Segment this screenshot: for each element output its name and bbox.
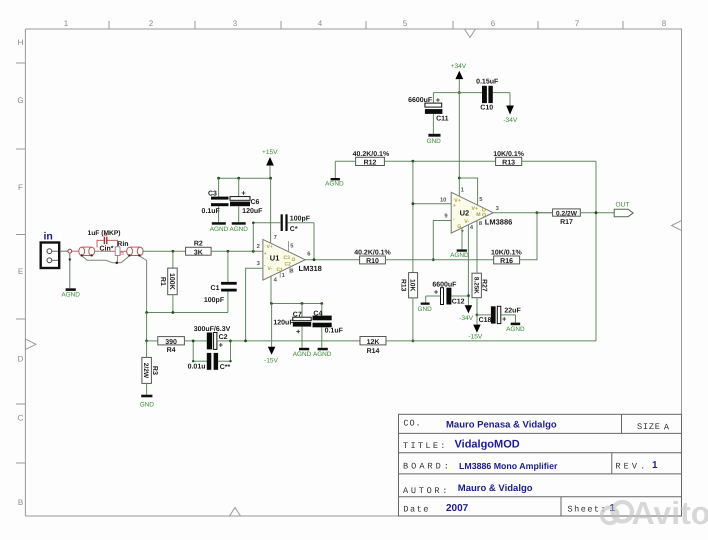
wire R10 to R16 <box>385 259 493 261</box>
svg-text:-: - <box>453 217 455 223</box>
svg-text:C12: C12 <box>452 299 465 306</box>
svg-text:8: 8 <box>290 267 294 274</box>
frame center mark top <box>465 29 476 38</box>
svg-text:C7: C7 <box>293 311 302 318</box>
capacitor C3 <box>202 178 229 222</box>
svg-text:AGND: AGND <box>229 226 248 233</box>
wire R13 to output node <box>595 161 597 341</box>
svg-text:TITLE:: TITLE: <box>403 441 448 451</box>
svg-text:R17: R17 <box>560 219 573 226</box>
wire R4 rail to R14 <box>231 340 361 342</box>
node U2 pin10 tap <box>412 202 415 205</box>
wire junction down to AGND <box>69 253 71 288</box>
wire U2 pin 10 <box>413 203 451 205</box>
svg-text:4: 4 <box>274 278 278 284</box>
node +15V tap <box>269 177 272 180</box>
svg-text:LM318: LM318 <box>299 264 322 273</box>
svg-text:AUTOR:: AUTOR: <box>403 486 450 496</box>
svg-text:Rin: Rin <box>117 240 128 248</box>
power -15V (U1) <box>271 304 273 347</box>
svg-text:1uF (MKP): 1uF (MKP) <box>87 230 120 237</box>
capacitor C11 6600uF <box>408 93 449 134</box>
svg-text:+: + <box>434 288 439 297</box>
svg-text:GND: GND <box>140 402 155 409</box>
svg-text:AGND: AGND <box>210 226 229 233</box>
resistor R13b vertical 10K <box>400 273 418 341</box>
svg-text:2007: 2007 <box>446 503 469 514</box>
wire Rin bottom lead <box>117 256 119 263</box>
wire U2 pin 8 to R27 <box>476 221 478 274</box>
junction dots shield <box>81 254 141 264</box>
svg-text:LM3886 Mono Amplifier: LM3886 Mono Amplifier <box>459 461 558 471</box>
svg-text:D: D <box>18 355 24 364</box>
svg-text:R27: R27 <box>480 279 487 292</box>
wire shield return path <box>82 256 130 263</box>
svg-text:1: 1 <box>64 19 69 28</box>
svg-text:R14: R14 <box>367 348 380 355</box>
svg-text:0.1uF: 0.1uF <box>325 328 344 335</box>
capacitor C6 <box>230 178 263 222</box>
svg-text:R2: R2 <box>194 241 203 248</box>
svg-text:R10: R10 <box>366 258 379 265</box>
svg-text:AGND: AGND <box>61 292 80 299</box>
svg-text:V-: V- <box>464 219 469 225</box>
svg-text:R12: R12 <box>364 159 377 166</box>
node shield/C1 rail <box>145 311 148 314</box>
svg-text:C*: C* <box>290 226 298 233</box>
svg-text:3K: 3K <box>194 249 203 256</box>
svg-text:OUT: OUT <box>616 202 630 209</box>
wire shield to vertical <box>139 256 146 313</box>
svg-text:120uF: 120uF <box>242 208 263 215</box>
wire U2 pin 3 output <box>493 212 552 214</box>
node U1 pin3 tap <box>244 340 247 343</box>
svg-text:+34V: +34V <box>451 63 467 70</box>
svg-text:100pF: 100pF <box>204 297 225 304</box>
svg-text:10: 10 <box>440 197 446 204</box>
wire R14 to output vertical <box>386 340 596 342</box>
svg-text:8: 8 <box>662 19 667 28</box>
capacitor C* 100pF feedback <box>252 214 314 259</box>
svg-text:CO.: CO. <box>403 419 421 429</box>
svg-text:in: in <box>44 231 53 243</box>
ground AGND (input) <box>66 288 76 291</box>
svg-text:+: + <box>219 340 224 349</box>
svg-text:O: O <box>292 257 296 263</box>
resistor R2 <box>186 241 212 257</box>
frame column numbers <box>64 19 667 28</box>
svg-text:5: 5 <box>403 19 408 28</box>
title block field labels <box>403 419 670 515</box>
capacitor C** 0.01u <box>188 341 231 371</box>
wire +34V down to U2 <box>458 93 460 197</box>
ground AGND (U2 pin 7) <box>461 228 463 250</box>
power -34V (U2) <box>465 305 473 313</box>
svg-text:VidalgoMOD: VidalgoMOD <box>455 439 520 451</box>
svg-text:F: F <box>18 183 23 192</box>
svg-text:V+: V+ <box>267 244 273 250</box>
svg-text:U1: U1 <box>270 254 280 263</box>
wire +15V rail <box>219 177 271 179</box>
svg-text:B: B <box>18 498 23 507</box>
svg-text:+: + <box>264 251 267 257</box>
node C2 left <box>192 340 195 343</box>
svg-text:C6: C6 <box>251 199 260 206</box>
svg-text:Avito: Avito <box>632 495 708 531</box>
resistor R17 0.2/2W <box>537 209 614 226</box>
svg-text:R16: R16 <box>500 258 513 265</box>
svg-text:SIZE: SIZE <box>637 422 661 432</box>
svg-text:1: 1 <box>461 188 465 194</box>
svg-text:12K: 12K <box>367 339 380 346</box>
node R12/R13 <box>412 160 415 163</box>
svg-text:AGND: AGND <box>313 351 332 358</box>
wire -15V rail under U1 <box>271 303 322 305</box>
resistor Rin <box>115 247 120 256</box>
resistor R13 10K/0.1% <box>493 150 596 166</box>
node R1 top <box>172 250 175 253</box>
wire R12 vertical down <box>412 161 414 272</box>
connector X1 "in" <box>41 243 60 269</box>
capacitor C7 120uF <box>273 304 311 348</box>
svg-text:A: A <box>664 422 670 432</box>
svg-text:Mauro & Vidalgo: Mauro & Vidalgo <box>458 483 533 494</box>
node C2 right <box>229 340 232 343</box>
capacitor C10 0.15uF <box>476 79 499 112</box>
op-amp U2 <box>451 192 493 233</box>
connector OUT flag <box>614 209 633 216</box>
capacitor Cin* 1uF MKP bypass loop <box>97 240 118 247</box>
svg-text:0.2/2W: 0.2/2W <box>556 210 578 217</box>
power -15V (R27) <box>476 315 478 325</box>
svg-text:300uF/6.3V: 300uF/6.3V <box>194 325 231 333</box>
node R13v bottom <box>412 340 415 343</box>
node C* corner <box>252 222 255 225</box>
svg-text:Date: Date <box>403 505 429 515</box>
svg-text:1: 1 <box>652 460 658 471</box>
ground AGND (C6) <box>232 222 246 225</box>
wire U1 output <box>305 259 359 261</box>
ground AGND (C3) <box>212 222 226 225</box>
node R17 right <box>595 211 598 214</box>
node R1 bottom <box>172 311 175 314</box>
svg-text:Mauro Penasa & Vidalgo: Mauro Penasa & Vidalgo <box>446 419 557 430</box>
svg-text:10K/0.1%: 10K/0.1% <box>493 150 525 158</box>
svg-text:7: 7 <box>575 19 580 28</box>
svg-text:LM3886: LM3886 <box>485 218 513 227</box>
wire U2 pin 9 <box>433 221 451 260</box>
node C7 top <box>301 302 304 305</box>
svg-text:R13: R13 <box>502 159 515 166</box>
svg-text:-15V: -15V <box>264 358 279 365</box>
node U2 pin1/pin5 <box>458 177 461 180</box>
svg-text:AGND: AGND <box>450 252 469 259</box>
capacitor C2 300uF/6.3V <box>193 325 230 349</box>
node C** left <box>192 360 194 362</box>
svg-text:-34V: -34V <box>459 315 474 322</box>
ground GND (C12) <box>421 303 430 305</box>
svg-text:C4: C4 <box>313 310 322 317</box>
svg-text:GND: GND <box>427 138 442 145</box>
svg-text:R13: R13 <box>400 279 407 292</box>
frame top ticks <box>109 21 623 29</box>
svg-text:7: 7 <box>274 235 277 241</box>
svg-text:3: 3 <box>496 205 500 212</box>
U1 pin numbers <box>257 235 312 284</box>
svg-text:C11: C11 <box>436 115 449 122</box>
ground GND (R3) <box>141 395 152 398</box>
wire bottom rail R1/C1 <box>147 312 228 314</box>
svg-text:GND: GND <box>417 306 432 313</box>
title block values <box>446 419 658 514</box>
svg-text:REV.: REV. <box>615 462 648 472</box>
resistor R1 <box>159 251 177 312</box>
node U1 output / C* <box>313 258 316 261</box>
svg-text:3: 3 <box>257 260 261 267</box>
svg-text:9: 9 <box>444 213 448 220</box>
svg-text:4: 4 <box>470 225 474 231</box>
svg-text:H: H <box>18 38 24 47</box>
svg-text:22uF: 22uF <box>504 308 521 315</box>
svg-text:2: 2 <box>149 19 154 28</box>
svg-text:C1: C1 <box>211 285 220 292</box>
svg-text:E: E <box>18 267 23 276</box>
svg-text:3: 3 <box>233 19 238 28</box>
resistor R16 10K/0.1% <box>491 249 523 265</box>
frame center mark right <box>672 221 682 231</box>
svg-text:AGND: AGND <box>506 326 525 333</box>
svg-text:4: 4 <box>318 19 323 28</box>
svg-text:-34V: -34V <box>503 117 518 124</box>
node C3 top <box>217 177 220 180</box>
solder jumper SJ2 <box>127 247 143 255</box>
svg-text:C3: C3 <box>284 255 291 261</box>
resistor R4 390 <box>147 337 194 355</box>
svg-text:M: M <box>476 212 480 218</box>
svg-text:R4: R4 <box>167 347 176 354</box>
svg-text:C18: C18 <box>479 317 492 324</box>
U2 pin numbers <box>440 188 500 236</box>
U2 pin names <box>453 198 486 230</box>
svg-text:+15V: +15V <box>262 149 278 156</box>
node U1 pin4 <box>270 302 273 305</box>
node C1 tap <box>227 250 230 253</box>
ground AGND (R12) <box>334 161 336 178</box>
svg-text:10K: 10K <box>409 279 416 292</box>
wire U1 pin 7 <box>270 178 272 243</box>
node input junction ring <box>68 249 72 253</box>
wire U1 pin 4 <box>270 276 272 303</box>
resistor R12 40.2K/0.1% <box>335 150 495 166</box>
wire connector to input junction <box>60 250 68 252</box>
U1 pin 1 stub <box>279 272 281 278</box>
svg-text:100pF: 100pF <box>290 216 311 223</box>
wire +34V rail <box>433 92 482 94</box>
solder jumper SJ1 <box>79 247 95 255</box>
capacitor C18 22uF <box>477 306 521 324</box>
node U2 pin9 tap <box>432 258 435 261</box>
ground AGND (C4) <box>318 348 328 351</box>
node R27 bottom <box>476 314 479 317</box>
wire U2 pin 4 to -34V <box>467 225 469 306</box>
svg-text:0.01u: 0.01u <box>188 364 206 371</box>
frame center mark left <box>25 339 36 350</box>
power -34V (C10) <box>509 93 511 106</box>
U1 pin 5 stub <box>288 241 290 251</box>
svg-text:100K: 100K <box>168 273 175 290</box>
svg-text:5: 5 <box>290 244 294 250</box>
ground AGND (C7) <box>299 348 309 351</box>
title block outline <box>399 414 682 516</box>
svg-text:C10: C10 <box>480 104 493 111</box>
svg-text:C: C <box>18 414 24 423</box>
svg-text:1: 1 <box>282 273 286 279</box>
svg-text:R1: R1 <box>159 277 166 286</box>
node C* tap <box>252 250 255 253</box>
svg-text:2/2W: 2/2W <box>142 363 149 379</box>
svg-text:AGND: AGND <box>293 351 312 358</box>
pin mark red <box>121 253 124 255</box>
node C4 top <box>320 302 323 305</box>
wire jumper to Rin <box>95 250 116 252</box>
frame row letters <box>17 38 23 507</box>
op-amp U1 <box>263 239 305 280</box>
wire R2 to U1 pin 2 <box>211 250 263 252</box>
svg-text:6: 6 <box>491 19 496 28</box>
svg-text:V-: V- <box>268 266 273 272</box>
node C12 right <box>467 294 470 297</box>
watermark avito logo <box>602 502 632 523</box>
svg-text:BOARD:: BOARD: <box>403 461 452 471</box>
wire Rin to jumper 2 <box>120 250 127 252</box>
svg-text:0.1uF: 0.1uF <box>202 208 221 215</box>
svg-text:+: + <box>502 314 507 323</box>
svg-text:C3: C3 <box>208 191 217 198</box>
U1 pin 8 stub <box>289 267 291 273</box>
capacitor C12 6600uF <box>426 281 469 305</box>
capacitor C1 100pF <box>204 251 237 312</box>
node output junction <box>536 211 539 214</box>
svg-text:0.15uF: 0.15uF <box>476 79 499 86</box>
svg-text:40.2K/0.1%: 40.2K/0.1% <box>353 150 390 158</box>
U1 pin names <box>264 244 296 273</box>
capacitor C4 0.1uF <box>313 304 344 348</box>
svg-text:+: + <box>296 327 301 336</box>
svg-text:G: G <box>17 96 23 105</box>
svg-text:390: 390 <box>165 339 177 346</box>
svg-text:-15V: -15V <box>468 334 483 341</box>
svg-text:120uF: 120uF <box>273 319 294 326</box>
svg-text:R3: R3 <box>151 366 158 375</box>
ground AGND (C18) <box>511 323 521 326</box>
frame center mark bottom <box>230 508 241 517</box>
svg-text:8: 8 <box>479 220 483 227</box>
wire junction to jumper <box>72 250 79 252</box>
resistor R3 2/2W <box>142 341 158 395</box>
wire jumper2 to R2 <box>142 250 185 252</box>
resistor R10 40.2K/0.1% <box>354 249 391 266</box>
svg-text:6: 6 <box>307 251 311 258</box>
svg-text:U2: U2 <box>460 209 470 218</box>
resistor R27 8.25K <box>472 273 487 315</box>
node +34V rail tap <box>458 91 461 94</box>
svg-text:2: 2 <box>257 243 260 250</box>
wire pin 5 branch <box>459 178 477 205</box>
svg-text:C**: C** <box>220 364 231 371</box>
wire shield vertical to R4 rail <box>146 313 148 341</box>
wire R16 to output node <box>520 213 537 260</box>
svg-text:AGND: AGND <box>325 181 344 188</box>
node C6 top <box>237 177 240 180</box>
node C** right <box>229 360 231 362</box>
svg-text:8.25K: 8.25K <box>472 277 479 294</box>
svg-text:40.2K/0.1%: 40.2K/0.1% <box>354 249 391 257</box>
svg-text:+: + <box>453 203 456 209</box>
frame left ticks <box>16 63 25 463</box>
resistor R14 12K <box>360 337 386 356</box>
svg-text:5: 5 <box>479 197 483 203</box>
wire U1 pin 3 <box>246 268 263 341</box>
svg-text:C2: C2 <box>285 261 292 267</box>
ground GND (C11) <box>428 134 440 137</box>
